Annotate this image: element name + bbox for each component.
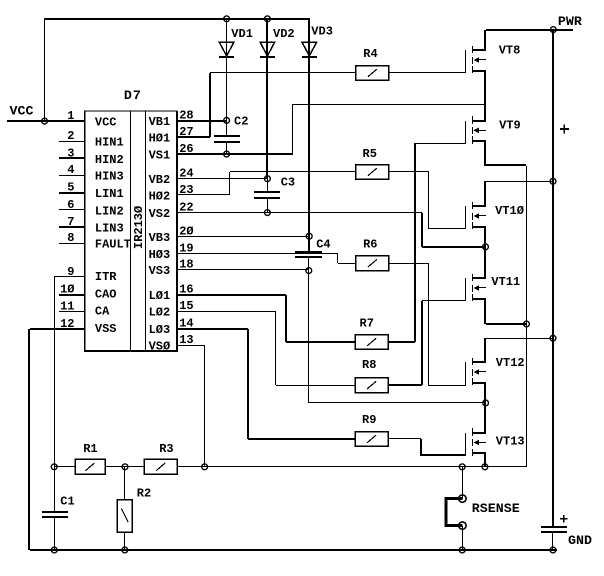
svg-text:VT9: VT9 <box>499 119 521 133</box>
wire H02 riser <box>229 172 230 195</box>
wire H02 to R5 <box>230 171 356 172</box>
wire pin19 H03 stub <box>177 253 338 254</box>
svg-text:12: 12 <box>60 317 74 331</box>
svg-text:6: 6 <box>67 198 74 212</box>
node C1 gnd <box>51 547 57 553</box>
capacitor GND electrolytic <box>541 526 567 528</box>
node C3 top <box>265 176 271 182</box>
wire R7 riser <box>414 143 416 342</box>
wire R1-R3 link <box>105 466 144 467</box>
node R2 gnd <box>122 547 128 553</box>
wire VS1 to phase1 <box>293 104 486 105</box>
diode VD3 <box>302 42 317 56</box>
wire pin22 VS2 <box>177 212 422 213</box>
wire pin9 ITR stub <box>54 276 85 277</box>
svg-text:13: 13 <box>179 333 193 347</box>
wire R5 right <box>389 171 429 172</box>
svg-text:VT12: VT12 <box>496 356 525 370</box>
wire VT12 drain to rail <box>486 338 553 339</box>
wire pin23 H02 stub <box>177 194 230 195</box>
wire pin26 VS1 <box>177 153 293 155</box>
wire VD2 column <box>266 19 268 179</box>
capacitor C1 <box>42 511 68 513</box>
transistor VT12 <box>465 362 466 385</box>
wire R8 right <box>388 384 422 386</box>
pin stub <box>59 175 85 176</box>
capacitor C4 <box>295 251 322 253</box>
capacitor C3 <box>254 191 280 193</box>
pin stub <box>59 243 85 244</box>
wire VT12 drain riser <box>484 338 486 362</box>
svg-text:VT11: VT11 <box>491 275 520 289</box>
svg-text:R2: R2 <box>137 487 151 501</box>
wire C1 top lead <box>54 467 55 512</box>
svg-text:R4: R4 <box>363 47 377 61</box>
wire VT11 source drop <box>484 299 486 324</box>
node RSENSE gnd <box>459 547 465 553</box>
wire pin24 VB2 to C3 <box>177 178 267 179</box>
wire L03 drop <box>247 329 249 439</box>
svg-text:C2: C2 <box>234 115 248 129</box>
svg-text:HØ1: HØ1 <box>149 132 171 146</box>
node VS3 phase3 junction <box>483 400 489 406</box>
wire R4 to VT8 gate <box>389 72 465 73</box>
wire VS2 drop <box>421 213 423 247</box>
svg-text:HØ2: HØ2 <box>149 189 171 203</box>
svg-text:23: 23 <box>179 183 193 197</box>
svg-text:IR213Ø: IR213Ø <box>132 206 146 249</box>
transistor VT13 <box>465 433 466 456</box>
svg-text:LØ1: LØ1 <box>149 289 171 303</box>
svg-text:27: 27 <box>179 125 193 139</box>
wire R2 top lead <box>124 467 125 500</box>
svg-text:CA: CA <box>95 304 110 318</box>
wire low-side bus <box>526 166 527 467</box>
wire R6 drop <box>428 263 429 386</box>
svg-text:C3: C3 <box>281 175 295 189</box>
svg-text:GND: GND <box>568 533 592 548</box>
wire R2 bottom lead <box>124 532 125 550</box>
wire C4 stub top <box>308 236 310 251</box>
svg-text:VB1: VB1 <box>149 115 171 129</box>
transistor VT10 <box>465 206 466 229</box>
wire H03 to R6 <box>338 263 356 264</box>
wire R1 row left <box>54 466 75 467</box>
svg-text:R8: R8 <box>362 358 376 372</box>
resistor R6 <box>356 256 389 271</box>
svg-text:LØ2: LØ2 <box>149 306 171 320</box>
pin stub <box>59 311 85 312</box>
svg-text:R1: R1 <box>83 442 97 456</box>
wire VT10 drain to rail <box>486 181 553 182</box>
svg-text:VT13: VT13 <box>496 435 525 449</box>
wire VT8 drain riser <box>484 30 486 50</box>
wire R7 right <box>388 341 415 343</box>
node VCC junction <box>42 118 48 124</box>
wire H01 riser <box>209 73 211 137</box>
wire R3 row right <box>177 466 526 467</box>
wire VS0 drop <box>204 345 205 467</box>
wire to VT12 gate <box>428 385 466 386</box>
pin stub <box>59 294 85 296</box>
svg-text:VS1: VS1 <box>149 149 171 163</box>
wire L03 to R9 <box>248 438 355 440</box>
svg-text:LIN3: LIN3 <box>95 222 124 236</box>
wire RSENSE top lead <box>462 467 463 499</box>
svg-text:14: 14 <box>179 317 193 331</box>
svg-text:22: 22 <box>179 201 193 215</box>
wire phase2 column <box>484 227 486 278</box>
svg-text:HØ3: HØ3 <box>149 248 171 262</box>
svg-text:24: 24 <box>179 166 193 180</box>
capacitor C2 <box>214 135 240 137</box>
resistor R1 <box>75 459 105 474</box>
IC U1 IR2130 body (D7) <box>85 111 177 351</box>
wire L01 to R7 <box>286 341 355 343</box>
svg-text:C1: C1 <box>60 495 74 509</box>
transistor VT8 <box>465 50 466 73</box>
svg-text:ITR: ITR <box>95 270 117 284</box>
svg-text:VS2: VS2 <box>149 207 171 221</box>
pin stub <box>59 226 85 228</box>
wire pin27 H01 stub <box>177 136 210 138</box>
wire pin12 VSS <box>30 328 85 330</box>
wire GND cap lead <box>552 532 553 550</box>
svg-text:VD3: VD3 <box>311 25 333 39</box>
resistor R4 <box>356 66 389 81</box>
svg-text:28: 28 <box>179 109 193 123</box>
wire R9 drop <box>420 439 422 456</box>
resistor R8 <box>355 378 388 393</box>
node VS2 phase2 junction <box>483 244 489 250</box>
wire VT13 source drop <box>484 453 486 467</box>
wire pin28 VB1 to C2 <box>177 120 227 122</box>
svg-text:R9: R9 <box>362 413 376 427</box>
pin stub <box>59 192 85 194</box>
resistor R9 <box>355 432 388 447</box>
wire phase3 column <box>484 383 486 433</box>
wire L02 to R8 <box>276 385 355 386</box>
diode VD2 <box>260 42 275 56</box>
wire PWR rail column <box>552 30 554 527</box>
resistor RSENSE <box>446 499 463 526</box>
wire L01 drop <box>285 295 287 342</box>
wire VD3 column <box>308 18 310 236</box>
wire VS3 drop <box>308 270 309 403</box>
svg-text:VB2: VB2 <box>149 173 171 187</box>
wire C2 stub bottom <box>226 143 227 154</box>
svg-text:HIN3: HIN3 <box>95 170 124 184</box>
wire VCC riser <box>44 19 45 121</box>
resistor R2 (vertical) <box>117 500 132 533</box>
wire pin18 VS3 <box>177 269 309 270</box>
node VT13 source junction <box>482 464 488 470</box>
svg-text:HIN1: HIN1 <box>95 136 124 150</box>
node PWR junction <box>550 27 556 33</box>
wire VS1 riser <box>292 104 293 154</box>
svg-text:FAULT: FAULT <box>95 238 131 252</box>
wire top VCC rail <box>44 18 310 20</box>
node C2 top <box>224 118 230 124</box>
svg-text:D7: D7 <box>124 88 142 103</box>
wire top PWR rail <box>486 29 573 31</box>
pin stub <box>59 209 85 210</box>
wire pin15 L02 <box>177 311 276 312</box>
svg-text:18: 18 <box>179 258 193 272</box>
wire H01 to R4 <box>210 72 356 73</box>
wire R8 riser <box>421 301 423 385</box>
resistor R7 <box>355 335 388 350</box>
svg-text:RSENSE: RSENSE <box>472 501 520 516</box>
svg-text:VS3: VS3 <box>149 264 171 278</box>
node C4 bottom <box>306 268 312 274</box>
wire C2 stub top <box>226 120 227 135</box>
svg-text:LIN2: LIN2 <box>95 204 124 218</box>
svg-text:R7: R7 <box>360 317 374 331</box>
wire VT11 source to bus <box>486 323 527 325</box>
svg-text:8: 8 <box>67 231 74 245</box>
wire L02 drop <box>275 311 276 385</box>
wire VT10 drain riser <box>484 181 486 206</box>
svg-text:VD1: VD1 <box>231 27 253 41</box>
svg-text:R3: R3 <box>159 442 173 456</box>
wire C4 stub bottom <box>308 258 309 270</box>
diode VD1 <box>219 42 234 56</box>
wire to VT13 gate <box>421 454 466 456</box>
svg-text:VD2: VD2 <box>273 27 295 41</box>
svg-text:R6: R6 <box>363 237 377 251</box>
wire VT9 source to bus <box>486 164 526 166</box>
svg-text:LIN1: LIN1 <box>95 187 124 201</box>
svg-text:11: 11 <box>60 299 74 313</box>
wire pin20 VB3 to C4 <box>177 236 309 237</box>
svg-text:5: 5 <box>67 181 74 195</box>
svg-text:PWR: PWR <box>558 14 582 29</box>
wire ITR column <box>54 277 55 467</box>
node R1/R2/R3 <box>122 464 128 470</box>
wire pin16 L01 <box>177 294 286 296</box>
node VD1 rail junction <box>224 16 230 22</box>
transistor VT9 <box>465 121 466 144</box>
wire R6 right <box>389 263 428 264</box>
wire to VT11 gate <box>422 300 466 301</box>
wire pin13 VS0 stub <box>177 345 204 346</box>
svg-text:2Ø: 2Ø <box>179 224 193 238</box>
svg-text:1: 1 <box>67 109 74 123</box>
svg-text:VCC: VCC <box>10 104 34 119</box>
svg-text:VCC: VCC <box>95 115 117 129</box>
wire C3 stub bottom <box>267 199 268 213</box>
svg-text:VT1Ø: VT1Ø <box>495 204 524 218</box>
node R3 right <box>202 464 208 470</box>
node R1 left <box>51 464 57 470</box>
resistor R3 <box>144 459 177 474</box>
wire RSENSE bottom lead <box>462 526 463 550</box>
svg-text:CAO: CAO <box>95 288 117 302</box>
svg-text:LØ3: LØ3 <box>149 323 171 337</box>
wire to VT10 gate <box>429 228 465 229</box>
wire C3 stub top <box>267 179 268 192</box>
node C2 bottom <box>224 151 230 157</box>
node C4 top <box>306 233 312 239</box>
svg-text:2: 2 <box>67 129 74 143</box>
wire VSS column <box>28 329 30 550</box>
svg-text:16: 16 <box>179 283 193 297</box>
node VT10 rail junction <box>550 178 556 184</box>
wire R9 right <box>388 438 421 439</box>
wire R5 drop <box>428 172 429 229</box>
node RSENSE top row <box>459 464 465 470</box>
wire VT9 source drop <box>484 141 486 166</box>
node VT11 bus junction <box>524 321 530 327</box>
pin stub <box>59 157 85 159</box>
svg-text:VSØ: VSØ <box>149 340 171 354</box>
svg-text:HIN2: HIN2 <box>95 153 124 167</box>
svg-text:19: 19 <box>179 242 193 256</box>
wire to VT9 gate <box>415 143 465 144</box>
svg-text:7: 7 <box>67 215 74 229</box>
node VD2 rail junction <box>265 16 271 22</box>
wire C1 bottom lead <box>54 518 55 550</box>
plus sign PWR <box>560 125 569 134</box>
wire VS2 to phase2 <box>422 246 486 248</box>
pin stub <box>59 141 85 142</box>
plus sign cap <box>560 515 567 522</box>
wire VCC to pin 1 <box>7 120 85 122</box>
svg-text:3: 3 <box>67 146 74 160</box>
resistor R5 <box>356 165 389 180</box>
svg-text:15: 15 <box>179 299 193 313</box>
node VT12 rail junction <box>550 335 556 341</box>
svg-text:4: 4 <box>67 163 74 177</box>
node C3 bottom <box>265 210 271 216</box>
svg-text:VT8: VT8 <box>499 43 521 57</box>
svg-text:9: 9 <box>67 265 74 279</box>
wire pin14 L03 <box>177 328 248 330</box>
svg-text:26: 26 <box>179 142 193 156</box>
svg-text:VB3: VB3 <box>149 231 171 245</box>
transistor VT11 <box>465 278 466 301</box>
svg-text:1Ø: 1Ø <box>60 282 74 296</box>
wire bottom GND rail <box>30 549 557 551</box>
wire VS3 to phase3 <box>309 402 486 403</box>
wire VD1 column <box>226 19 227 120</box>
wire phase1 column <box>484 71 486 121</box>
svg-text:R5: R5 <box>363 147 377 161</box>
wire H03 drop <box>337 254 338 263</box>
node cap gnd <box>550 547 556 553</box>
svg-text:VSS: VSS <box>95 322 117 336</box>
svg-text:C4: C4 <box>316 237 330 251</box>
